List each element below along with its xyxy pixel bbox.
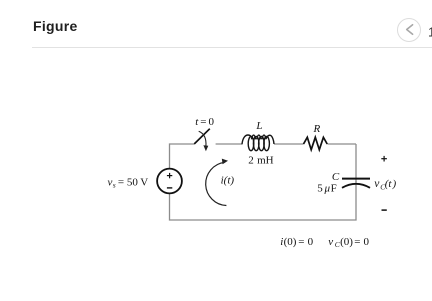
svg-text:R: R	[313, 123, 321, 135]
svg-text:=: =	[200, 116, 206, 128]
svg-text:=: =	[298, 236, 304, 248]
svg-text:2: 2	[248, 154, 254, 166]
svg-text:v: v	[328, 236, 333, 248]
svg-text:s: s	[113, 181, 116, 190]
svg-text:(0): (0)	[284, 236, 297, 248]
svg-text:μ: μ	[324, 182, 331, 194]
svg-text:(0): (0)	[340, 236, 353, 248]
svg-text:=: =	[354, 236, 360, 248]
svg-text:i(t): i(t)	[221, 174, 235, 186]
svg-text:0: 0	[308, 236, 314, 248]
svg-text:): )	[392, 178, 397, 190]
svg-text:0: 0	[209, 116, 215, 128]
svg-text:V: V	[140, 176, 148, 188]
svg-text:1: 1	[428, 24, 432, 39]
svg-text:F: F	[331, 182, 337, 194]
svg-text:50: 50	[127, 176, 138, 188]
svg-text:mH: mH	[257, 154, 274, 166]
svg-text:0: 0	[364, 236, 370, 248]
svg-text:5: 5	[317, 182, 323, 194]
svg-text:t: t	[195, 116, 199, 128]
svg-text:C: C	[332, 171, 340, 183]
svg-text:=: =	[118, 176, 124, 188]
svg-text:L: L	[255, 120, 262, 132]
svg-text:v: v	[108, 176, 113, 188]
